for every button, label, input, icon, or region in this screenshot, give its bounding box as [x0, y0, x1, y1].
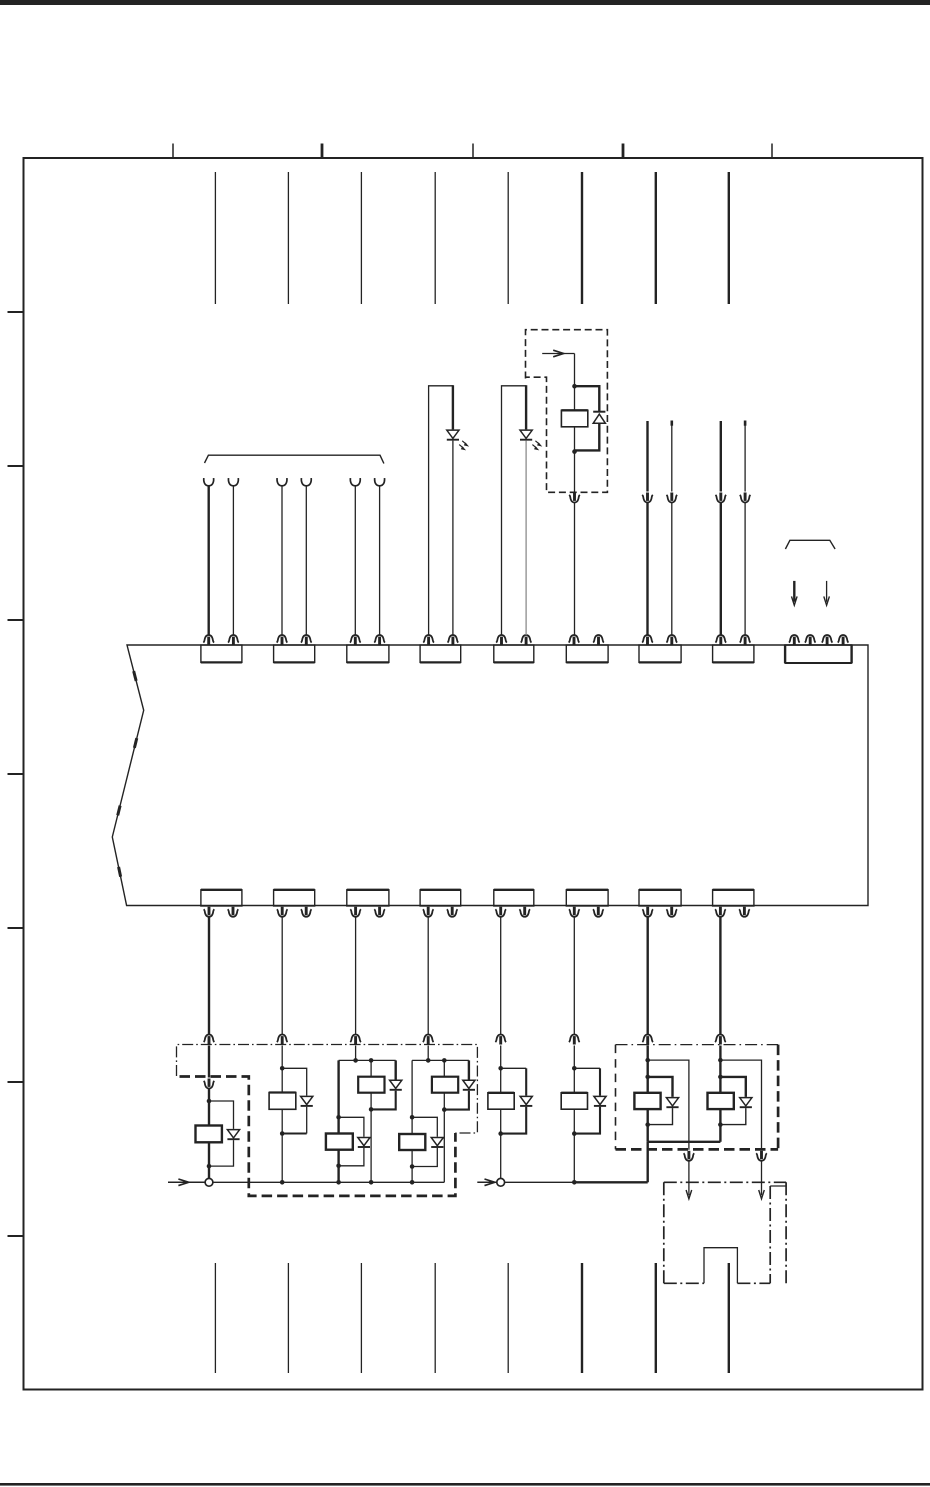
pin terminal (module bottom): [447, 907, 458, 917]
break mark: [132, 671, 137, 681]
relay box outline (chain): [177, 1045, 478, 1134]
bus1 feed arrow: [168, 1181, 205, 1183]
open-end terminal: [277, 478, 287, 486]
pin terminal (module top): [350, 635, 361, 645]
wire: [646, 421, 648, 492]
wire (bottom cut wire 3): [360, 1263, 362, 1373]
wire (to diode): [209, 1101, 234, 1129]
pin terminal (module top): [569, 635, 580, 645]
relay coil K10: [708, 1093, 734, 1109]
unit box (chain bottom L): [664, 1282, 704, 1284]
unit box stub: [770, 1185, 786, 1187]
wire: [647, 1142, 649, 1183]
node (bus1 ring): [205, 1178, 213, 1186]
arrowhead: [178, 1179, 188, 1186]
border tick (top): [172, 144, 174, 159]
wire (bus1 corner): [443, 1110, 445, 1183]
wire (link K9-K10): [648, 1141, 721, 1143]
wire: [719, 1125, 721, 1142]
junction: [572, 384, 577, 389]
wire: [500, 1068, 502, 1093]
connector tab B5 (bottom): [494, 890, 534, 906]
bus2 feed arrow: [477, 1181, 497, 1183]
wire (diode return): [575, 423, 600, 450]
connector terminal: [495, 1035, 506, 1045]
signal arrow: [542, 353, 574, 355]
wire (top cut wire 5): [507, 172, 509, 304]
wire: [647, 916, 649, 1035]
wire: [281, 916, 283, 1035]
wire: [379, 486, 381, 635]
wire: [647, 1060, 649, 1077]
control unit (break-line box): [112, 645, 868, 906]
relay coil K4: [326, 1134, 353, 1150]
wire: [337, 1150, 339, 1166]
pin terminal (module top): [496, 635, 507, 645]
page top rule: [0, 0, 930, 5]
wire (to diode): [395, 1060, 397, 1079]
wire (to lower diode): [412, 1117, 437, 1136]
wire: [500, 1134, 502, 1179]
border tick (top): [771, 144, 773, 159]
connector terminal: [204, 1035, 215, 1045]
wire: [647, 1046, 649, 1061]
pin terminal (module bottom): [569, 907, 580, 917]
pin terminal (module top): [521, 635, 532, 645]
wire: [443, 1060, 445, 1076]
pin terminal (module top): [805, 635, 816, 645]
open-end terminal: [375, 478, 385, 486]
break mark: [117, 867, 122, 877]
junction: [645, 1122, 650, 1127]
unit box (chain inner right): [769, 1186, 771, 1283]
wire (top cut wire 2): [287, 172, 289, 304]
wire: [305, 486, 307, 635]
connector tab B2 (bottom): [274, 890, 315, 906]
junction: [369, 1058, 374, 1063]
wire (top link): [412, 1059, 469, 1061]
pin terminal (module bottom): [423, 907, 434, 917]
wire: [719, 1109, 721, 1125]
wire: [411, 1150, 413, 1167]
break mark: [133, 738, 138, 748]
wire (diode return): [444, 1091, 469, 1110]
wire: [500, 916, 502, 1035]
wire: [281, 1109, 283, 1133]
inline connector: [716, 493, 727, 503]
pin terminal (module top): [740, 635, 751, 645]
connector tab T7 (top): [639, 645, 681, 662]
junction: [410, 1115, 415, 1120]
junction: [336, 1164, 341, 1169]
wire (top cut wire 7): [655, 172, 657, 304]
junction: [572, 449, 577, 454]
border tick (left): [8, 927, 24, 929]
inline connector: [204, 1079, 215, 1089]
wire (bottom cut wire 2): [287, 1263, 289, 1373]
pin terminal (module bottom): [204, 907, 215, 917]
wire: [208, 916, 210, 1035]
connector tab T9 (top): [785, 645, 852, 663]
junction: [280, 1131, 285, 1136]
wire (diode return): [339, 1148, 364, 1166]
unit box (chain bottom R): [737, 1282, 770, 1284]
junction: [369, 1180, 374, 1185]
LED1 loop wire: [429, 386, 453, 636]
relay coil K8: [561, 1093, 587, 1109]
connector tab B4 (bottom): [420, 890, 461, 906]
wire: [574, 386, 576, 410]
inline connector: [740, 493, 751, 503]
pin terminal (module top): [667, 635, 678, 645]
pin terminal (module bottom): [593, 907, 604, 917]
pin terminal (module top): [789, 635, 800, 645]
junction: [207, 1099, 212, 1104]
relay coil K0: [561, 410, 587, 427]
arrowhead: [485, 1179, 495, 1186]
connector tab T3 (top): [347, 645, 389, 662]
relay coil K3: [358, 1077, 384, 1093]
pin terminal (module top): [374, 635, 385, 645]
junction: [410, 1164, 415, 1169]
pin terminal (module bottom): [519, 907, 530, 917]
pin terminal (module bottom): [301, 907, 312, 917]
wire (top link): [339, 1059, 396, 1061]
connector tab T2 (top): [274, 645, 315, 662]
border tick (left): [8, 1235, 24, 1237]
wire stub (thick end): [671, 421, 674, 426]
wire: [574, 354, 576, 387]
wire: [719, 1046, 721, 1077]
arrowhead: [759, 1190, 765, 1199]
LED2 light arrows: [535, 441, 542, 447]
wire (diode return): [209, 1140, 234, 1166]
wire (diode return): [648, 1108, 673, 1125]
diode D11: [227, 1130, 239, 1140]
wire (bottom cut wire 6): [581, 1263, 583, 1373]
connector tab T6 (top): [566, 645, 608, 662]
wire: [370, 1060, 372, 1076]
wire: [573, 1134, 575, 1183]
wire: [574, 452, 576, 492]
pin terminal (module bottom): [374, 907, 385, 917]
bus1 wire: [213, 1181, 444, 1183]
wire: [719, 916, 721, 1035]
junction: [442, 1107, 447, 1112]
wire: [355, 1046, 357, 1061]
connector tab T5 (top): [494, 645, 534, 662]
relay box outline (dashed left): [615, 1045, 617, 1150]
border tick (top): [622, 144, 625, 159]
wire: [574, 427, 576, 452]
wire: [207, 486, 209, 635]
LED D1: [447, 430, 459, 440]
connector terminal: [423, 1035, 434, 1045]
LED1 anode wire: [452, 385, 454, 429]
wire: [574, 502, 576, 635]
connector terminal: [569, 1035, 580, 1045]
relay coil K5: [432, 1077, 458, 1093]
wire: [281, 1068, 283, 1092]
wire: [208, 1088, 210, 1101]
wire (bottom cut wire 4): [434, 1263, 436, 1373]
wire (top cut wire 1): [214, 172, 216, 304]
relay coil K2: [269, 1093, 296, 1110]
wire: [671, 502, 673, 635]
LED2 anode wire: [525, 385, 527, 429]
wire: [647, 1125, 649, 1142]
arrowhead: [686, 1190, 692, 1199]
open-end terminal: [204, 478, 214, 486]
wire: [281, 1046, 283, 1069]
relay coil K7: [488, 1093, 514, 1109]
wire: [744, 426, 746, 492]
dashed box (relay unit): [526, 330, 608, 493]
wire: [337, 1060, 339, 1117]
inline connector: [667, 493, 678, 503]
junction: [718, 1075, 723, 1080]
pin terminal (module top): [448, 635, 459, 645]
arrowhead: [824, 596, 830, 605]
diode D19: [666, 1098, 678, 1108]
wire (top cut wire 6): [581, 172, 583, 304]
connector tab B3 (bottom): [347, 890, 389, 906]
break mark: [116, 805, 121, 815]
relay coil K1: [196, 1126, 222, 1143]
wire: [573, 1068, 575, 1093]
connector tab T1 (top): [201, 645, 242, 662]
wire (to diode): [282, 1068, 307, 1095]
wire: [500, 1109, 502, 1133]
wire: [688, 1161, 690, 1195]
relay box outline (heavy bottom): [616, 1148, 779, 1151]
connector terminal: [350, 1035, 361, 1045]
unit box (chain outer right): [785, 1182, 787, 1283]
wire (to diode): [575, 386, 600, 412]
wire (top cut wire 4): [434, 172, 436, 304]
junction: [572, 1180, 577, 1185]
diode D15: [463, 1080, 475, 1090]
connector tab B1 (bottom): [201, 890, 242, 906]
wire: [208, 1046, 210, 1078]
diode D20: [740, 1098, 752, 1108]
unit box notch: [704, 1248, 737, 1284]
wire: [208, 1101, 210, 1126]
wire: [370, 1093, 372, 1110]
wire: [411, 1167, 413, 1183]
relay box outline (heavy right): [777, 1045, 780, 1150]
junction: [369, 1107, 374, 1112]
connector tab B8 (bottom): [713, 890, 754, 906]
pin terminal (module top): [277, 635, 288, 645]
bracket (harness group): [205, 455, 384, 463]
wire: [281, 486, 283, 635]
border tick (left): [8, 619, 24, 621]
wire (to diode): [501, 1067, 527, 1069]
diode D14: [358, 1137, 370, 1147]
connector tab B6 (bottom): [566, 890, 608, 906]
connector terminal: [277, 1035, 288, 1045]
wire: [573, 916, 575, 1035]
pin terminal (module top): [822, 635, 833, 645]
junction: [280, 1180, 285, 1185]
relay box outline (heavy dashed): [180, 1077, 456, 1196]
wire (to T9): [826, 581, 828, 602]
arrowhead: [792, 596, 798, 605]
wire: [647, 1077, 649, 1093]
signal arrowhead: [553, 350, 563, 357]
wire: [427, 1046, 429, 1061]
wire: [573, 1109, 575, 1133]
unit box (chain left): [663, 1182, 665, 1283]
open-end terminal: [350, 478, 360, 486]
wire: [744, 502, 746, 635]
bracket (harness group): [785, 540, 835, 549]
wire (diode return): [306, 1107, 308, 1134]
wire (to diode): [599, 1068, 601, 1095]
wire (bottom cut wire 1): [214, 1263, 216, 1373]
inline connector: [569, 493, 580, 503]
pin terminal (module top): [228, 635, 239, 645]
junction: [718, 1058, 723, 1063]
LED2 loop wire: [502, 386, 527, 636]
junction: [572, 1066, 577, 1071]
wire: [443, 1093, 445, 1110]
wire (to diode): [468, 1060, 470, 1079]
LED1 cathode wire: [452, 441, 454, 636]
diode DZ (up): [593, 411, 605, 413]
pin terminal (module top): [838, 635, 849, 645]
wire (diode return): [371, 1091, 396, 1110]
connector tab T8 (top): [713, 645, 754, 662]
LED D2: [520, 430, 532, 440]
wire (diode return): [720, 1108, 745, 1125]
junction: [498, 1131, 503, 1136]
open-end terminal: [228, 478, 238, 486]
wire: [370, 1109, 372, 1182]
wire: [719, 1077, 721, 1093]
diode D17: [520, 1096, 532, 1106]
page bottom rule: [0, 1483, 930, 1486]
pin terminal (module bottom): [228, 907, 239, 917]
junction: [336, 1115, 341, 1120]
border tick (top): [472, 144, 474, 159]
junction: [498, 1066, 503, 1071]
pin terminal (module bottom): [739, 907, 750, 917]
relay coil K9: [634, 1093, 660, 1109]
pin terminal (module top): [593, 635, 604, 645]
connector tab T4 (top): [420, 645, 461, 662]
wire (to diode): [648, 1077, 673, 1097]
pin terminal (module top): [716, 635, 727, 645]
relay box outline (chain top): [616, 1044, 779, 1046]
border tick (left): [8, 465, 24, 467]
junction: [280, 1066, 285, 1071]
pin terminal (module top): [642, 635, 653, 645]
wire (to diode): [525, 1068, 527, 1095]
wire (to diode): [574, 1067, 600, 1069]
pin terminal (module top): [203, 635, 214, 645]
wire: [208, 1166, 210, 1178]
inline connector: [684, 1151, 695, 1161]
border tick (top): [321, 144, 324, 159]
bus2 wire: [505, 1181, 575, 1183]
junction: [442, 1058, 447, 1063]
wire: [411, 1060, 413, 1117]
junction: [353, 1058, 358, 1063]
wire: [208, 1142, 210, 1166]
LED1 light arrows: [462, 441, 469, 447]
inline connector: [642, 493, 653, 503]
border tick (left): [8, 311, 24, 313]
pin terminal (module bottom): [666, 907, 677, 917]
pin terminal (module bottom): [715, 907, 726, 917]
wire: [337, 1117, 339, 1133]
junction: [426, 1058, 431, 1063]
pin terminal (module bottom): [277, 907, 288, 917]
wire: [337, 1166, 339, 1183]
wire: [427, 916, 429, 1035]
junction: [645, 1058, 650, 1063]
junction: [336, 1180, 341, 1185]
unit box (chain top): [664, 1181, 786, 1183]
wire (bottom cut wire 5): [507, 1263, 509, 1373]
wire (diode return): [501, 1107, 527, 1134]
wire (top cut wire 8): [728, 172, 730, 304]
junction: [645, 1075, 650, 1080]
wire (top cut wire 3): [360, 172, 362, 304]
wire: [281, 1134, 283, 1183]
diode D13: [390, 1080, 402, 1090]
pin terminal (module bottom): [642, 907, 653, 917]
wire (return joint): [282, 1133, 307, 1135]
wire: [647, 1109, 649, 1125]
relay coil K6: [399, 1134, 425, 1150]
diode D16: [431, 1137, 443, 1147]
wire (branch out): [720, 1060, 761, 1150]
wire (to T9): [793, 581, 795, 602]
wire: [761, 1161, 763, 1195]
border tick (left): [8, 773, 24, 775]
bus2 wire (thick): [574, 1181, 647, 1183]
connector tab B7 (bottom): [639, 890, 681, 906]
wire: [720, 421, 722, 492]
node (bus2 ring): [497, 1178, 505, 1186]
pin terminal (module bottom): [350, 907, 361, 917]
wire: [411, 1117, 413, 1134]
inline connector: [756, 1151, 767, 1161]
wire: [646, 502, 648, 635]
wire (diode return): [574, 1107, 600, 1134]
pin terminal (module top): [301, 635, 312, 645]
wire (to lower diode): [339, 1117, 364, 1136]
diode D18: [594, 1096, 606, 1106]
diode D12: [301, 1096, 313, 1106]
connector terminal: [642, 1035, 653, 1045]
junction: [718, 1122, 723, 1127]
wire: [500, 1046, 502, 1069]
wire (branch out): [648, 1060, 689, 1150]
wire: [671, 426, 673, 492]
wire: [354, 486, 356, 635]
wire: [573, 1046, 575, 1069]
border tick (left): [8, 1081, 24, 1083]
wire (diode return): [412, 1148, 437, 1167]
pin terminal (module top): [423, 635, 434, 645]
wire: [720, 502, 722, 635]
LED2 cathode wire (gray): [525, 441, 527, 636]
junction: [207, 1164, 212, 1169]
